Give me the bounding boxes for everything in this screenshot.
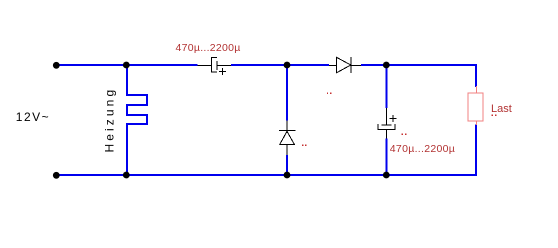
diode D2 triangle <box>337 57 351 73</box>
wire: top rail right segment to corner <box>361 64 477 66</box>
label dots near C2 <box>402 134 407 135</box>
wire: right vertical lower (from load) <box>475 125 477 177</box>
label dots near Last <box>492 114 497 115</box>
wire: middle diode branch lower blue <box>286 155 288 176</box>
diode D1 triangle <box>280 131 295 144</box>
node: junction diode D1 top <box>284 62 291 69</box>
node: source terminal bottom <box>53 172 60 179</box>
capacitor C2 electrolytic: top lead <box>386 108 387 125</box>
label dots near D2 <box>327 93 332 94</box>
wire: top rail left segment <box>56 64 198 66</box>
node: source terminal top <box>53 62 60 69</box>
label 12V~ source <box>16 112 50 123</box>
value label C1 470u...2200u <box>176 43 241 53</box>
wire: electrolytic branch upper blue <box>386 64 388 108</box>
wire: middle diode branch upper blue <box>286 64 288 121</box>
capacitor C2 straight plate <box>382 125 392 126</box>
wire: top rail middle segment <box>231 64 329 66</box>
diode D2 series top: left lead <box>329 65 337 66</box>
wire: electrolytic branch lower blue <box>386 139 388 177</box>
label Heizung heater (rotated) <box>105 88 116 152</box>
wire: right vertical upper (to load) <box>475 64 477 87</box>
capacitor C1 straight plate <box>217 61 218 70</box>
diode D2 right lead <box>352 65 362 66</box>
diode D2 cathode bar <box>351 57 352 73</box>
capacitor C1 bracket plate <box>211 57 217 73</box>
diode D1 shunt middle: top lead <box>287 121 288 131</box>
node: junction diode D1 bottom <box>284 172 291 179</box>
capacitor C2 bracket plate <box>378 124 396 130</box>
label dots near D1 <box>302 145 307 146</box>
wire: bottom rail <box>56 174 477 176</box>
load RL bottom lead <box>476 121 477 125</box>
load RL "Last": top lead <box>476 86 477 93</box>
value label C2 470u...2200u <box>390 144 455 154</box>
capacitor C2 bottom lead <box>386 130 387 139</box>
node: junction heater top <box>123 62 130 69</box>
node: junction capacitor C2 bottom <box>383 172 390 179</box>
label Last load <box>491 104 512 114</box>
capacitor C1 plus sign <box>219 68 226 75</box>
resistor R1 heater "Heizung" meander <box>126 64 148 176</box>
capacitor C1 series 470u-2200u : left lead <box>198 65 212 66</box>
load RL body rectangle <box>468 93 483 121</box>
capacitor C2 plus sign <box>390 115 397 122</box>
node: junction heater bottom <box>123 172 130 179</box>
diode D1 cathode bar <box>279 130 296 131</box>
node: junction capacitor C2 top <box>383 62 390 69</box>
diode D1 bottom lead <box>287 145 288 155</box>
capacitor C1 right lead <box>218 65 232 66</box>
